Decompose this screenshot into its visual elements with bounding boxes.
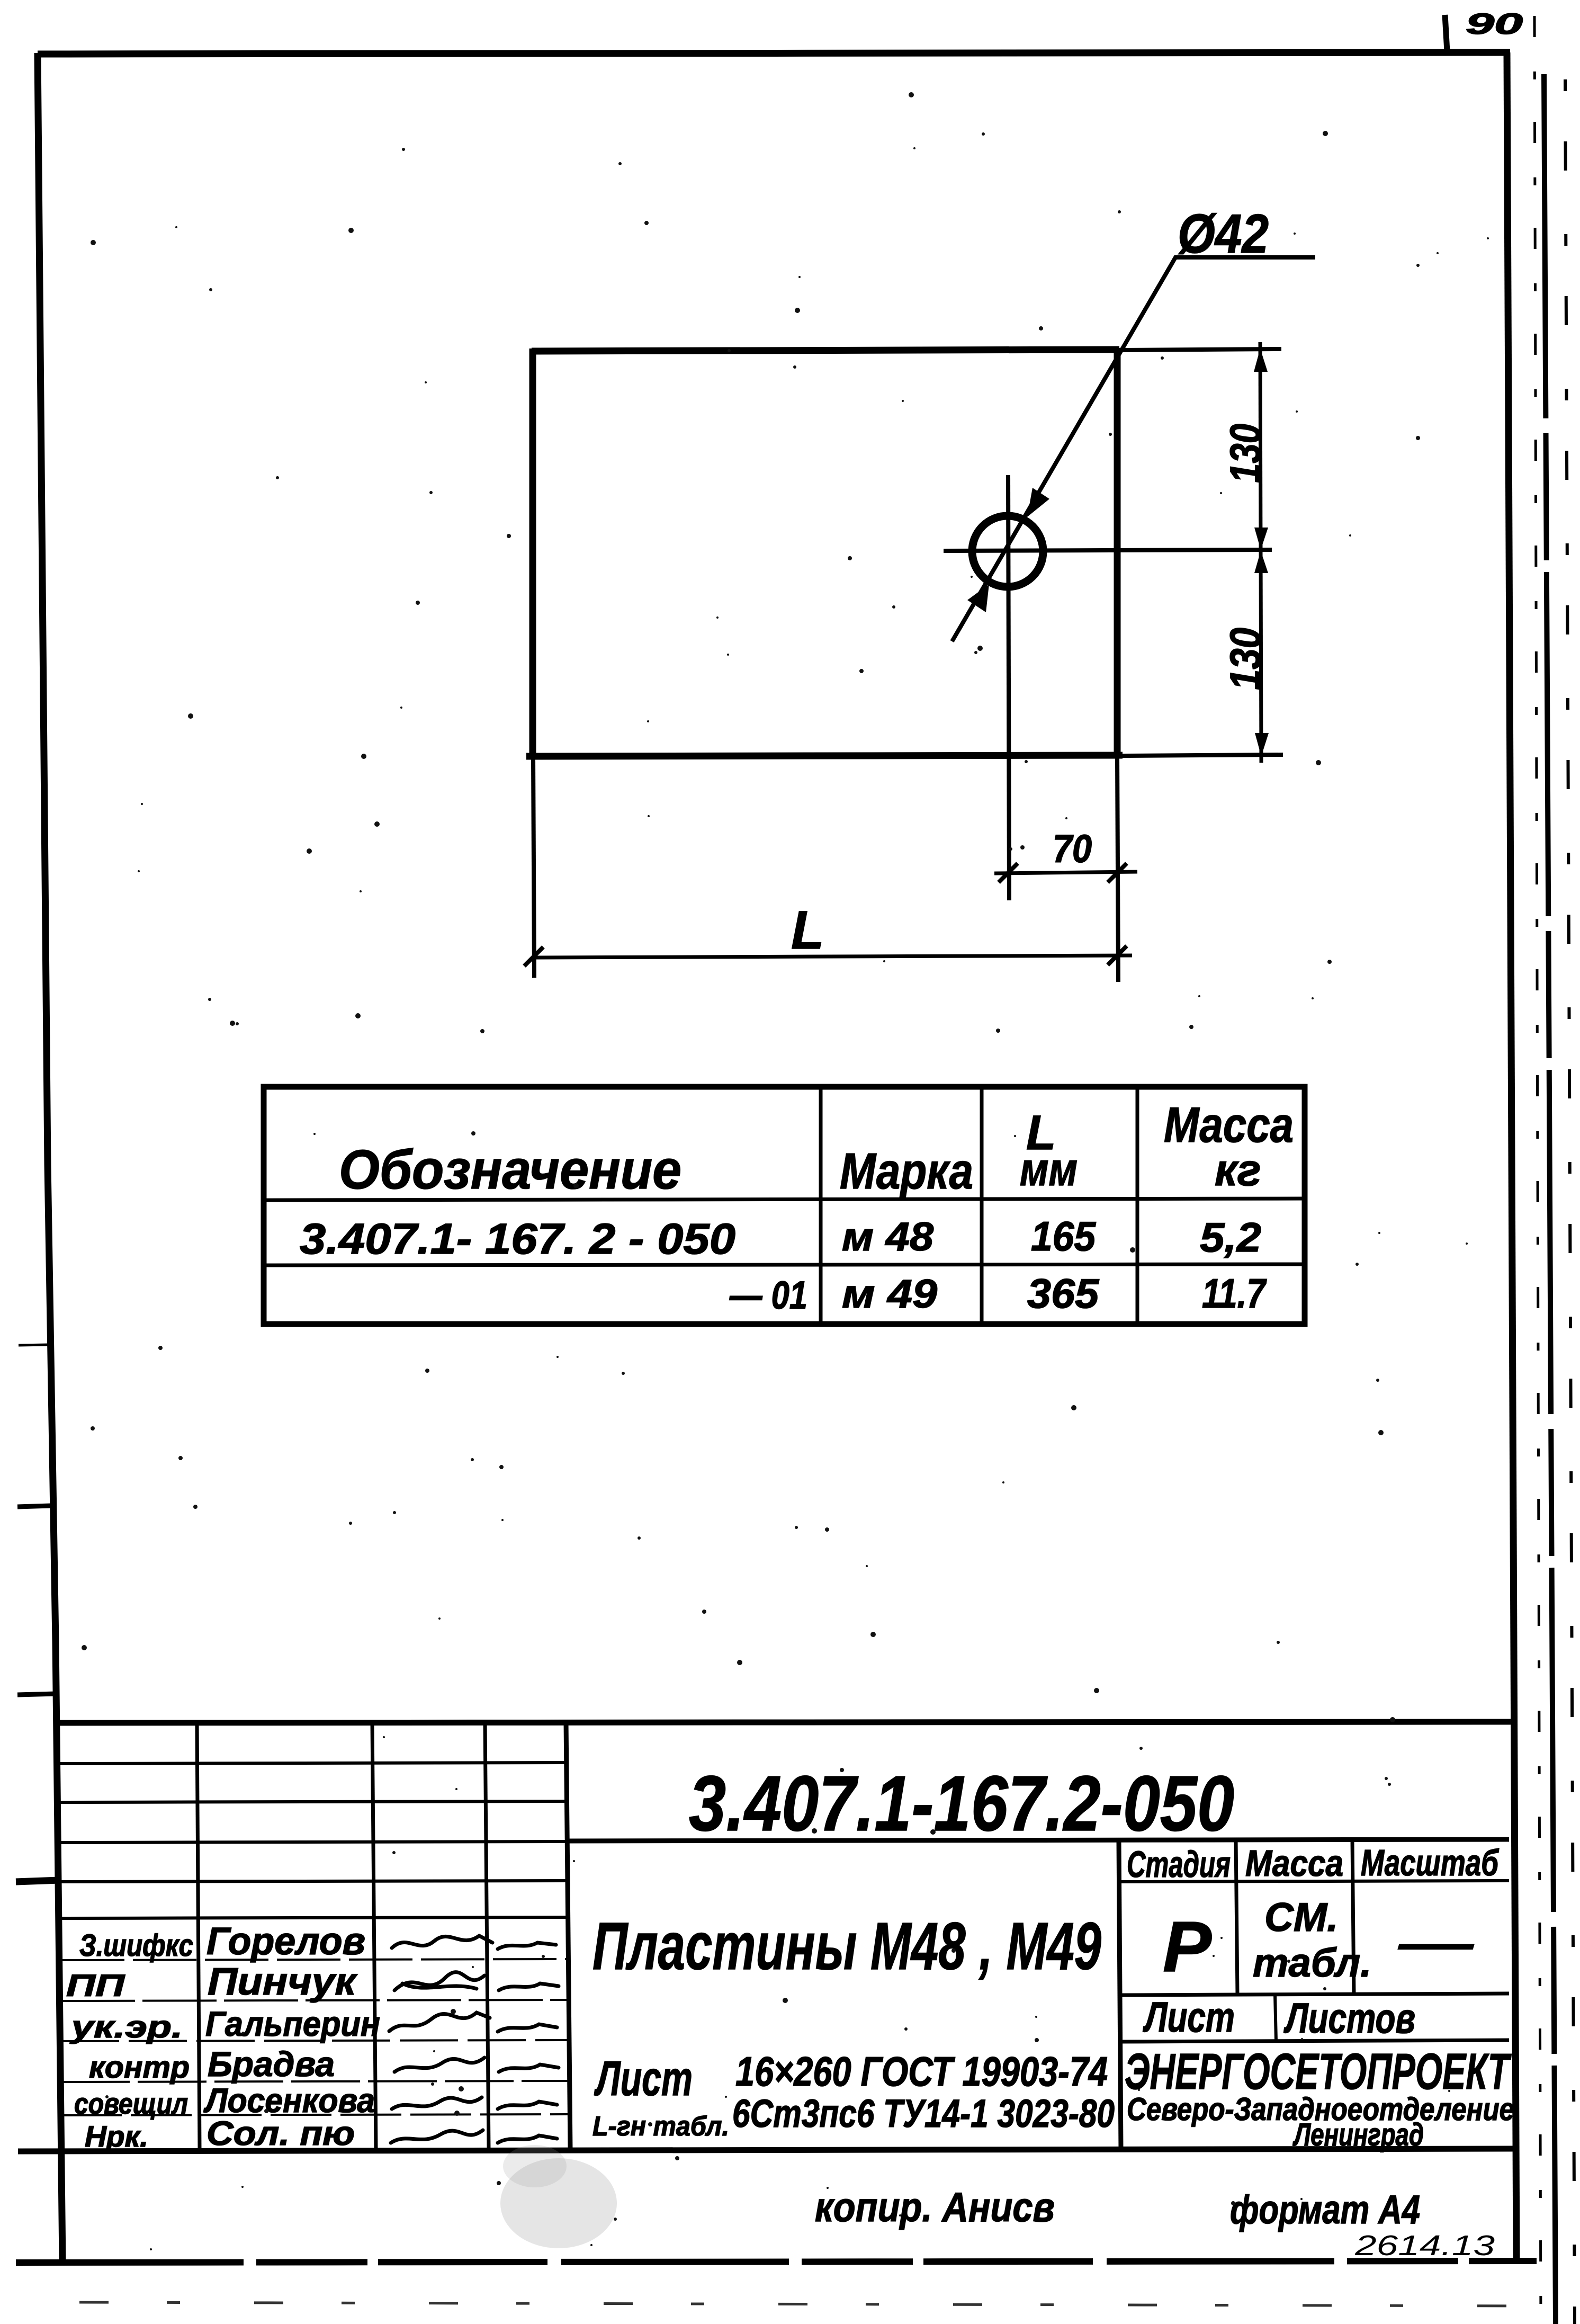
table col divider 3 <box>1136 1087 1139 1324</box>
page number box tick <box>1445 15 1447 51</box>
frame left border <box>38 53 62 2263</box>
svg-text:мм: мм <box>1020 1143 1078 1195</box>
date scribble row4 <box>499 2064 559 2072</box>
signature squiggle row3 <box>389 2013 490 2031</box>
leader arrow upper at circle <box>1027 488 1049 517</box>
svg-text:контр: контр <box>89 2050 190 2085</box>
svg-text:СМ.: СМ. <box>1264 1895 1338 1940</box>
date scribble row2 <box>499 1983 559 1990</box>
tb vertical divider x920 <box>485 1722 489 2149</box>
dim line L <box>533 955 1132 958</box>
signature squiggle row5 <box>392 2097 482 2109</box>
svg-text:Стадия: Стадия <box>1127 1844 1231 1885</box>
tb name row sep 2 <box>61 2000 568 2001</box>
frame right border <box>1507 52 1516 2263</box>
svg-text:З.шифкс: З.шифкс <box>79 1928 193 1963</box>
svg-text:кг: кг <box>1215 1145 1261 1195</box>
tb designation cell bottom <box>568 1839 1509 1841</box>
svg-text:Обозначение: Обозначение <box>339 1139 681 1201</box>
plate left edge <box>529 348 536 756</box>
svg-text:3.407.1- 167. 2 - 050: 3.407.1- 167. 2 - 050 <box>300 1215 735 1263</box>
svg-text:— 01: — 01 <box>729 1273 807 1317</box>
tb list row bottom <box>1120 2040 1509 2042</box>
paper edge scan line c <box>1565 79 1575 2324</box>
svg-text:Ленинград: Ленинград <box>1292 2117 1424 2152</box>
svg-text:копир. Анисв: копир. Анисв <box>815 2184 1055 2230</box>
tick L right <box>1108 946 1127 965</box>
dim line 130/130 vertical <box>1260 342 1261 763</box>
centerline vertical through hole <box>1008 475 1009 900</box>
smudge <box>500 2158 617 2248</box>
svg-text:Листов: Листов <box>1283 1995 1415 2042</box>
svg-text:11.7: 11.7 <box>1202 1270 1267 1317</box>
dim line 70 <box>994 872 1137 873</box>
svg-text:6Ст3пс6 ТУ14-1 3023-80: 6Ст3пс6 ТУ14-1 3023-80 <box>732 2091 1115 2135</box>
tb stadia col divider 1 <box>1236 1840 1237 1995</box>
svg-text:365: 365 <box>1027 1270 1100 1317</box>
extension line bottom right (130 dim) <box>1123 755 1283 756</box>
title block top line <box>56 1722 1511 1723</box>
svg-text:130: 130 <box>1222 628 1270 690</box>
svg-text:ук.эр.: ук.эр. <box>69 2010 183 2044</box>
date scribble row1 <box>498 1943 556 1949</box>
plate right edge <box>1114 348 1121 756</box>
svg-text:Р: Р <box>1163 1907 1212 1987</box>
tb stadia header bottom <box>1120 1881 1509 1882</box>
arrow 130 middle upper <box>1254 528 1268 550</box>
svg-text:Ø42: Ø42 <box>1178 203 1269 265</box>
extension line right (L and 70 dims) <box>1117 756 1118 982</box>
tb row line 3621 <box>58 1917 568 1918</box>
table row divider <box>264 1264 1305 1265</box>
tb vertical divider x377 <box>197 1722 200 2149</box>
svg-text:Марка: Марка <box>840 1143 973 1200</box>
signature squiggle row4 <box>394 2058 484 2072</box>
svg-text:формат А4: формат А4 <box>1230 2187 1420 2232</box>
leader line for d42 <box>952 257 1315 641</box>
svg-text:Брадва: Брадва <box>208 2044 335 2084</box>
tb name row sep 3 <box>61 2040 568 2041</box>
table col divider 2 <box>980 1087 984 1324</box>
centerline horizontal through hole <box>944 550 1272 551</box>
svg-text:16×260 ГОСТ 19903-74: 16×260 ГОСТ 19903-74 <box>735 2048 1108 2095</box>
date scribble row5 <box>498 2102 557 2109</box>
frame bottom border <box>16 2261 1537 2263</box>
svg-text:Лист: Лист <box>1143 1994 1235 2041</box>
bottom faint scan dashes <box>79 2302 1536 2306</box>
tb row line 3552 <box>58 1881 568 1882</box>
svg-text:165: 165 <box>1031 1213 1097 1259</box>
date scribble row3 <box>498 2024 557 2032</box>
plate top edge <box>532 350 1119 351</box>
svg-text:совещил: совещил <box>74 2087 188 2120</box>
arrow 130 top <box>1254 348 1268 372</box>
extension line left (L dim) <box>533 756 534 978</box>
table outer border <box>264 1087 1305 1324</box>
svg-text:—: — <box>1398 1917 1474 1970</box>
arrow 130 bottom <box>1255 733 1269 756</box>
signature squiggle row6 <box>391 2130 483 2143</box>
table header bottom line <box>264 1199 1305 1200</box>
hole circle d42 <box>972 516 1043 587</box>
tb row line 3478 <box>58 1842 568 1843</box>
title block bottom line <box>18 2149 1515 2151</box>
tb row line 3329 <box>58 1763 568 1764</box>
svg-text:Лист: Лист <box>594 2052 693 2106</box>
tb name row sep 4 <box>61 2081 568 2082</box>
svg-text:Пинчук: Пинчук <box>208 1961 358 2003</box>
tick 70 right <box>1108 863 1127 882</box>
left edge tick 2 <box>17 1506 50 1507</box>
svg-text:Масштаб: Масштаб <box>1361 1842 1499 1883</box>
svg-text:Сол. пю: Сол. пю <box>207 2114 355 2152</box>
tb row line 3402 <box>58 1801 568 1802</box>
tb vertical divider x707 <box>372 1722 376 2149</box>
svg-text:2614.13: 2614.13 <box>1354 2230 1495 2262</box>
svg-text:м 49: м 49 <box>842 1272 937 1317</box>
tb name row sep 1 <box>61 1959 568 1960</box>
svg-text:3.407.1-167.2-050: 3.407.1-167.2-050 <box>689 1760 1234 1847</box>
signature squiggle row1 <box>392 1936 492 1948</box>
tb stadia col divider 2 <box>1352 1840 1354 1995</box>
signature squiggle row2 <box>394 1972 484 1990</box>
svg-text:90: 90 <box>1466 7 1523 40</box>
left edge tick 1 <box>19 1345 48 1345</box>
svg-text:L: L <box>791 900 824 960</box>
tb name row sep 5 <box>61 2114 568 2115</box>
left edge tick 4 <box>16 1880 59 1882</box>
svg-text:Нрк.: Нрк. <box>85 2120 148 2153</box>
svg-text:70: 70 <box>1053 827 1092 871</box>
signatures squiggles <box>389 1936 559 2143</box>
svg-text:Масса: Масса <box>1164 1097 1294 1152</box>
svg-text:Масса: Масса <box>1245 1843 1343 1884</box>
tb vertical divider x2115 <box>1119 1840 1121 2149</box>
plate bottom edge <box>526 755 1123 756</box>
svg-text:5,2: 5,2 <box>1200 1214 1261 1261</box>
left edge tick 3 <box>17 1694 56 1695</box>
paper edge scan line a <box>1534 16 1541 2324</box>
paper edge scan line b <box>1544 74 1556 2324</box>
svg-text:L-гн табл.: L-гн табл. <box>592 2111 729 2142</box>
svg-text:табл.: табл. <box>1253 1941 1371 1986</box>
frame top border <box>38 52 1510 54</box>
arrow 130 middle lower <box>1254 551 1268 573</box>
extension line top right (130 dim) <box>1119 349 1281 350</box>
svg-text:ПП: ПП <box>66 1969 125 2003</box>
svg-text:м 48: м 48 <box>842 1214 934 1259</box>
svg-text:130: 130 <box>1222 424 1270 483</box>
date scribble row6 <box>498 2135 557 2143</box>
tick 70 left <box>999 863 1018 882</box>
svg-text:Горелов: Горелов <box>207 1920 365 1963</box>
svg-text:Гальперин: Гальперин <box>205 2004 380 2043</box>
tb list/listov divider <box>1275 1995 1276 2041</box>
tb vertical divider x1073 <box>566 1722 570 2149</box>
tb list row top <box>1120 1994 1509 1995</box>
leader arrow lower at circle <box>967 584 989 612</box>
table col divider 1 <box>819 1087 823 1324</box>
svg-text:Пластины М48 , М49: Пластины М48 , М49 <box>592 1909 1101 1983</box>
tick L left <box>524 947 543 966</box>
